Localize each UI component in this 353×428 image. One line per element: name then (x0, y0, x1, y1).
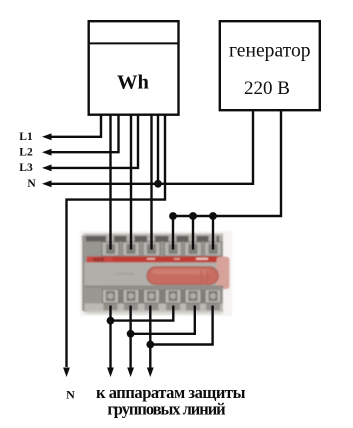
switch photo backdrop (80, 231, 232, 316)
svg-text:220 В: 220 В (244, 78, 290, 99)
ABB changeover switch (photo) (80, 231, 232, 316)
switch top cavity band (86, 236, 219, 242)
switch body base (84, 234, 223, 312)
switch left side plate (82, 235, 86, 311)
svg-text:групповых линий: групповых линий (107, 400, 226, 419)
wire bus drop to T4 (172, 216, 174, 250)
ABB red stripe (87, 256, 224, 262)
wire switch T4 output to out 1 (111, 306, 174, 321)
wire L2 supply from meter (42, 114, 119, 156)
junction dot bus T4 (169, 212, 177, 220)
switch red handle (147, 267, 218, 285)
generator box (220, 21, 320, 110)
wire switch T3 output (147, 306, 154, 378)
junction dot out 2 (127, 330, 135, 338)
top terminal clamp inners (106, 244, 218, 254)
arrowhead L2 (42, 149, 52, 156)
handle right pink housing (217, 257, 230, 290)
electricity meter Wh (89, 21, 179, 115)
wire N supply line to generator (42, 109, 253, 187)
wire switch T2 output (127, 306, 134, 378)
wire switch T6 output to out 3 (150, 306, 212, 345)
junction dot bus T6 (209, 212, 217, 220)
bottom terminal screws (106, 291, 218, 301)
arrowhead L3 (42, 165, 52, 172)
stripe small markings (147, 258, 155, 260)
svg-text:генератор: генератор (229, 41, 311, 62)
wire L3 supply from meter (42, 114, 138, 171)
wire meter L2 out to switch T2 (130, 114, 132, 250)
wire meter N out to bottom N bus (63, 114, 165, 377)
svg-text:N: N (27, 178, 36, 190)
wire bus drop to T6 (212, 216, 214, 250)
handle tick marks (201, 271, 203, 282)
switch front panel (85, 262, 224, 285)
svg-text:N: N (66, 388, 75, 402)
junction dot out 3 (146, 341, 154, 349)
svg-text:L3: L3 (19, 162, 33, 174)
bottom feet strip (85, 304, 224, 311)
svg-text:L1: L1 (19, 131, 33, 143)
switch top rim (84, 233, 223, 236)
wire switch T5 output to out 2 (131, 306, 195, 334)
wire bus drop to T5 (192, 216, 194, 250)
arrowhead L1 (42, 133, 52, 140)
bottom terminal clamps (103, 289, 222, 303)
wire meter L1 out to switch T1 (109, 114, 111, 250)
arrowhead out 3 (147, 368, 154, 378)
junction dot bus T5 (189, 212, 197, 220)
arrowhead N (42, 180, 52, 187)
top terminal clamps (102, 242, 222, 256)
top terminal mid band (84, 242, 223, 257)
wire meter L3 out to switch T3 (150, 114, 152, 250)
junction dot out 1 (107, 317, 115, 325)
junction dot meter N / supply N (154, 180, 162, 188)
body lower separation (85, 286, 224, 288)
arrowhead out 2 (127, 368, 134, 378)
svg-text:Wh: Wh (117, 72, 150, 94)
handle top highlight (152, 269, 210, 274)
ABB logo block (88, 257, 113, 263)
wire generator phase to switch bus (173, 109, 281, 216)
svg-text:L OT40F3C: L OT40F3C (114, 271, 135, 276)
wire switch T1 output (107, 306, 114, 378)
arrowhead out 1 (107, 368, 114, 378)
wire meter N input (157, 114, 159, 184)
switch bottom shadow (86, 311, 222, 315)
bottom terminal gaps (119, 289, 124, 303)
wire L1 supply from meter (42, 114, 101, 140)
arrowhead bottom N (63, 368, 70, 378)
bottom terminal band (85, 288, 224, 304)
top cavity light columns (106, 236, 114, 242)
svg-text:L2: L2 (19, 147, 33, 159)
